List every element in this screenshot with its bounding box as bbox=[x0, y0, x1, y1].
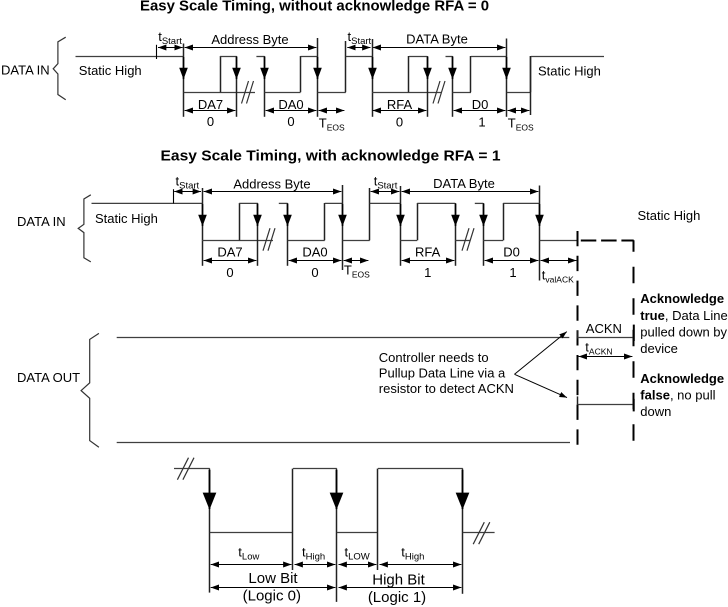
dim arrow DA0 (section 1) bbox=[266, 110, 317, 112]
wire: DA0 high rail (section 2) bbox=[325, 202, 343, 204]
svg-text:tLow: tLow bbox=[238, 544, 259, 562]
no-ack rail (acknowledge false) bbox=[578, 404, 635, 406]
svg-text:Static High: Static High bbox=[79, 63, 142, 78]
edge: RFA rising edge at 409 bbox=[408, 56, 410, 92]
ACKN pulse: low rail (acknowledge true) bbox=[578, 337, 634, 339]
break slashes on data byte (section 2) bbox=[462, 228, 474, 251]
dim arrow T_EOS (section 2) bbox=[344, 260, 369, 262]
dim arrow t_High (low bit) bbox=[295, 564, 336, 566]
edge: D0 rising edge at 471 bbox=[470, 56, 472, 92]
arrow: falling edge arrow at 539.7 bbox=[539, 204, 541, 226]
edge: rising edge at 369.7 (section 2) bbox=[369, 188, 371, 240]
wire: DA7 high rail bbox=[220, 56, 237, 58]
svg-text:Easy Scale Timing, with acknow: Easy Scale Timing, with acknowledge RFA … bbox=[161, 148, 501, 165]
arrow: falling edge arrow at 462.8 bbox=[462, 470, 464, 509]
svg-text:TEOS: TEOS bbox=[319, 115, 345, 132]
svg-text:down: down bbox=[640, 404, 671, 419]
wire: DA7 low rail (section 1) bbox=[184, 92, 255, 94]
svg-text:RFA: RFA bbox=[415, 244, 441, 259]
dim arrow RFA (section 2) bbox=[402, 260, 455, 262]
wire: D0 low rail (section 2) bbox=[483, 240, 503, 242]
break slashes on address byte (section 1) bbox=[242, 81, 254, 104]
arrow: falling edge arrow at 342.6 bbox=[342, 204, 344, 226]
arrow: falling edge arrow at 202 bbox=[202, 204, 204, 226]
edge: rising edge at 531 back to static high bbox=[530, 56, 532, 115]
wire: RFA low rail (section 2) bbox=[400, 240, 417, 242]
dim arrow T_EOS (section 1, address byte) bbox=[319, 110, 345, 112]
wire: T_EOS2 low rail bbox=[507, 92, 531, 94]
svg-text:TEOS: TEOS bbox=[508, 115, 534, 132]
wire: low rail at break (section 2 data byte) bbox=[455, 240, 470, 242]
dim arrow DA7 (section 2) bbox=[204, 260, 257, 262]
ACKN pulse: left tick bbox=[577, 331, 579, 339]
edge: rising edge at 345.8 (end of EOS) bbox=[345, 41, 347, 92]
dim arrow t_Start (section 1, data byte) bbox=[347, 47, 370, 49]
svg-text:pulled down by: pulled down by bbox=[640, 324, 727, 339]
dashed vertical line (right ack window boundary) bbox=[633, 240, 635, 448]
wire: T_EOS low rail bbox=[318, 92, 346, 94]
svg-text:Acknowledge: Acknowledge bbox=[640, 291, 724, 306]
arrow: falling edge arrow at 236.8 bbox=[236, 57, 238, 79]
svg-text:DA7: DA7 bbox=[198, 97, 223, 112]
ACKN pulse: right tick bbox=[633, 325, 635, 341]
wire: DA0 low rail (section 2) bbox=[288, 240, 325, 242]
dim arrow t_LOW (high bit) bbox=[339, 564, 377, 566]
edge: start-bit falling edge at x=183.7 (section 1) bbox=[183, 44, 185, 117]
svg-text:TEOS: TEOS bbox=[344, 262, 370, 279]
svg-text:Static High: Static High bbox=[95, 211, 158, 226]
wire: t_valACK low rail (section 2) bbox=[540, 240, 578, 242]
edge: DA7 rising edge at 220 bbox=[220, 56, 222, 92]
wire: DA0 low rail bbox=[265, 92, 301, 94]
edge: falling edge at 209.8 (low bit start) bbox=[209, 469, 211, 593]
arrow: falling edge arrow at 287.6 bbox=[287, 204, 289, 226]
edge: RFA end falling edge at 427.2 bbox=[427, 56, 429, 117]
dim arrow RFA (section 1) bbox=[373, 110, 427, 112]
wire: pre-D0 high rail bbox=[446, 56, 453, 58]
wire: pre-DA0 high rail (section 2) bbox=[279, 202, 288, 204]
wire: t_High high rail (high bit) bbox=[378, 468, 463, 470]
edge: DA0 start falling edge at 287.6 (section 2) bbox=[287, 203, 289, 266]
brace (DATA OUT) bbox=[81, 333, 99, 447]
dim arrow t_Low bbox=[211, 564, 292, 566]
dashed horizontal static-high continuation bbox=[581, 240, 634, 242]
svg-text:High Bit: High Bit bbox=[372, 571, 425, 588]
edge: RFA end falling edge at 455.2 (section 2) bbox=[455, 203, 457, 266]
edge: RFA start falling edge at 372 bbox=[372, 39, 374, 117]
dim arrow t_valACK (section 2) bbox=[541, 260, 577, 262]
dashed vertical line (left ack window boundary) bbox=[577, 231, 579, 452]
edge: rising edge at 293 bbox=[292, 469, 294, 570]
arrow: falling edge arrow at 400.2 bbox=[400, 204, 402, 226]
wire: D0 low rail bbox=[453, 92, 472, 94]
svg-text:0: 0 bbox=[287, 114, 294, 129]
svg-text:DA0: DA0 bbox=[302, 244, 327, 259]
tick: t_Start left boundary (section 1) bbox=[156, 45, 158, 59]
wire: RFA high rail bbox=[409, 56, 427, 58]
svg-text:0: 0 bbox=[207, 114, 214, 129]
wire: pre-D0 high rail (section 2) bbox=[475, 202, 483, 204]
arrow: falling edge arrow at 506.8 bbox=[506, 57, 508, 79]
svg-text:tStart: tStart bbox=[176, 173, 200, 191]
wire: t_LOW low rail (high bit) bbox=[337, 532, 378, 534]
svg-text:Static High: Static High bbox=[538, 64, 601, 79]
dim arrow t_Start (section 2, data byte) bbox=[371, 191, 400, 193]
dim arrow Low Bit bbox=[211, 587, 336, 589]
svg-text:0: 0 bbox=[226, 265, 233, 280]
edge: DA0 rising edge at 300.5 bbox=[300, 56, 302, 92]
wire: DATA OUT top rail bbox=[117, 337, 570, 339]
svg-text:DA0: DA0 bbox=[278, 97, 303, 112]
svg-text:tStart: tStart bbox=[158, 29, 182, 47]
svg-text:true, Data Line: true, Data Line bbox=[640, 308, 727, 323]
svg-text:tvalACK: tvalACK bbox=[542, 268, 574, 285]
dim arrow t_Start (section 1) bbox=[158, 47, 183, 49]
edge: RFA start falling edge at 400.2 (section 2) bbox=[400, 186, 402, 266]
arrow: note pointer to ACKN (up-right) bbox=[515, 332, 567, 375]
no-ack rail: right tick bbox=[633, 399, 635, 412]
wire: t_High high rail (low bit) bbox=[293, 468, 337, 470]
arrow: falling edge arrow at 257.9 bbox=[257, 204, 259, 226]
dim arrow High Bit bbox=[339, 587, 462, 589]
break slashes (bottom left) bbox=[177, 458, 194, 480]
wire: static high rail (section 2 left) bbox=[92, 202, 203, 204]
wire: D0 high rail (section 2) bbox=[503, 202, 540, 204]
edge: DA0 end falling edge at 342.6 (EOS boundary, section 2) bbox=[342, 185, 344, 270]
svg-text:D0: D0 bbox=[503, 244, 520, 259]
edge: DA7 rising edge at 239.2 (section 2) bbox=[239, 203, 241, 240]
arrow: falling edge arrow at 336.8 bbox=[336, 470, 338, 509]
arrow: falling edge arrow at 427.2 bbox=[427, 57, 429, 79]
edge: D0 start falling edge at 452.5 bbox=[452, 56, 454, 117]
break slashes on address byte (section 2) bbox=[263, 228, 275, 251]
arrow: falling edge arrow at 483.2 bbox=[483, 204, 485, 226]
svg-text:tHigh: tHigh bbox=[302, 544, 325, 562]
wire: t_Start high rail (between bytes) bbox=[346, 56, 372, 58]
svg-text:0: 0 bbox=[311, 265, 318, 280]
wire: T_EOS low rail (section 2) bbox=[343, 240, 370, 242]
edge: start-bit falling edge at x=202 (section 2) bbox=[202, 188, 204, 266]
arrow: falling edge arrow at 317.6 bbox=[317, 57, 319, 79]
svg-text:1: 1 bbox=[509, 265, 516, 280]
dim arrow DATA Byte (section 1) bbox=[373, 47, 506, 49]
edge: D0 end falling edge at 506.8 (EOS boundary) bbox=[506, 39, 508, 117]
edge: D0 start falling edge at 483.2 (section 2) bbox=[483, 203, 485, 266]
wire: leading high rail (bottom) bbox=[174, 468, 210, 470]
svg-text:tACKN: tACKN bbox=[585, 339, 612, 356]
wire: D0 high rail bbox=[471, 56, 507, 58]
edge: falling edge at 462.8 (end of high bit) bbox=[462, 469, 464, 594]
dim arrow D0 (section 2) bbox=[485, 260, 539, 262]
wire: static high rail (section 1 right) bbox=[531, 56, 604, 58]
dim arrow t_ACKN bbox=[579, 356, 633, 358]
svg-text:(Logic 0): (Logic 0) bbox=[243, 588, 301, 605]
arrow: note pointer to no-ack line (down-right) bbox=[515, 374, 568, 397]
edge: RFA rising edge at 417.2 (section 2) bbox=[417, 203, 419, 240]
svg-text:1: 1 bbox=[424, 265, 431, 280]
arrow: falling edge arrow at 264.5 bbox=[264, 57, 266, 79]
arrow: falling edge arrow at 455.2 bbox=[455, 204, 457, 226]
svg-text:DATA OUT: DATA OUT bbox=[17, 370, 80, 385]
svg-text:tHigh: tHigh bbox=[401, 544, 424, 562]
svg-text:Static High: Static High bbox=[638, 208, 701, 223]
wire: pre-DA0 high rail bbox=[256, 56, 264, 58]
edge: DA0 start falling edge at 264.5 bbox=[264, 56, 266, 117]
svg-text:tLOW: tLOW bbox=[345, 544, 370, 562]
svg-text:Low Bit: Low Bit bbox=[248, 570, 298, 587]
wire: DA0 high rail bbox=[301, 56, 318, 58]
dim arrow Address Byte (section 1) bbox=[185, 47, 317, 49]
svg-text:(Logic 1): (Logic 1) bbox=[368, 589, 426, 606]
dim arrow Address Byte (section 2) bbox=[204, 191, 342, 193]
break slashes (bottom right) bbox=[473, 522, 490, 544]
wire: RFA low rail bbox=[372, 92, 441, 94]
svg-text:Easy Scale Timing, without ack: Easy Scale Timing, without acknowledge R… bbox=[140, 0, 489, 15]
wire: trailing low rail (bottom right) bbox=[463, 532, 495, 534]
edge: D0 end falling edge at 539.7 (section 2) bbox=[539, 186, 541, 281]
arrow: falling edge arrow at 183.7 bbox=[183, 57, 185, 79]
dim arrow t_High (high bit) bbox=[380, 564, 462, 566]
svg-text:resistor to detect ACKN: resistor to detect ACKN bbox=[379, 381, 514, 396]
wire: static high rail (section 1 left) bbox=[76, 56, 185, 58]
svg-text:D0: D0 bbox=[472, 97, 489, 112]
svg-text:DATA Byte: DATA Byte bbox=[433, 176, 495, 191]
wire: DA7 high rail (section 2) bbox=[239, 202, 258, 204]
tick: t_Start left boundary (section 2) bbox=[173, 189, 175, 203]
edge: DA0 end falling edge at 317.6 (EOS boundary) bbox=[317, 38, 319, 117]
dim arrow T_EOS (section 1, data byte) bbox=[508, 110, 530, 112]
dim arrow t_Start (section 2, address byte) bbox=[174, 191, 201, 193]
dim arrow DATA Byte (section 2) bbox=[402, 191, 539, 193]
edge: DA0 rising edge at 324.7 (section 2) bbox=[324, 203, 326, 240]
edge: D0 rising edge at 503.2 (section 2) bbox=[503, 203, 505, 240]
svg-text:DATA Byte: DATA Byte bbox=[406, 32, 468, 47]
svg-text:ACKN: ACKN bbox=[586, 321, 622, 336]
svg-text:false, no pull: false, no pull bbox=[640, 388, 715, 403]
svg-text:Address Byte: Address Byte bbox=[233, 176, 310, 191]
arrow: falling edge arrow at 452.5 bbox=[452, 57, 454, 79]
arrow: falling edge arrow at 372 bbox=[372, 57, 374, 79]
wire: DATA OUT bottom rail bbox=[117, 442, 570, 444]
svg-text:DATA IN: DATA IN bbox=[17, 214, 66, 229]
edge: rising edge at 377.9 bbox=[377, 469, 379, 570]
svg-text:1: 1 bbox=[478, 115, 485, 130]
no-ack rail: left tick bbox=[577, 396, 579, 404]
wire: DA7 low rail (section 2) bbox=[202, 240, 273, 242]
svg-text:DATA IN: DATA IN bbox=[1, 63, 50, 78]
svg-text:RFA: RFA bbox=[387, 97, 413, 112]
wire: t_Start high rail between bytes (section 2) bbox=[370, 202, 401, 204]
svg-text:tStart: tStart bbox=[348, 29, 372, 47]
brace (DATA IN section 2) bbox=[78, 195, 91, 262]
dim arrow D0 (section 1) bbox=[454, 110, 506, 112]
break slashes on data byte (section 1) bbox=[433, 81, 445, 104]
edge: DA7 end falling edge at 257.9 (section 2) bbox=[257, 203, 259, 266]
svg-text:Acknowledge: Acknowledge bbox=[640, 371, 724, 386]
edge: falling edge at 336.8 (high bit start) bbox=[336, 469, 338, 602]
svg-text:tStart: tStart bbox=[374, 173, 398, 191]
svg-text:Address Byte: Address Byte bbox=[211, 32, 288, 47]
svg-text:DA7: DA7 bbox=[217, 244, 242, 259]
arrow: falling edge arrow at 209.8 bbox=[209, 470, 211, 509]
svg-text:0: 0 bbox=[396, 115, 403, 130]
edge: DA7 end falling edge at 236.8 bbox=[236, 56, 238, 117]
wire: t_Low low rail bbox=[210, 532, 293, 534]
svg-text:Pullup Data Line via a: Pullup Data Line via a bbox=[379, 365, 506, 380]
dim arrow DA7 (section 1) bbox=[185, 110, 236, 112]
wire: RFA high rail (section 2) bbox=[417, 202, 455, 204]
svg-text:device: device bbox=[640, 341, 678, 356]
svg-text:Controller needs to: Controller needs to bbox=[379, 350, 489, 365]
dim arrow DA0 (section 2) bbox=[289, 260, 342, 262]
brace (DATA IN section 1) bbox=[53, 37, 65, 99]
